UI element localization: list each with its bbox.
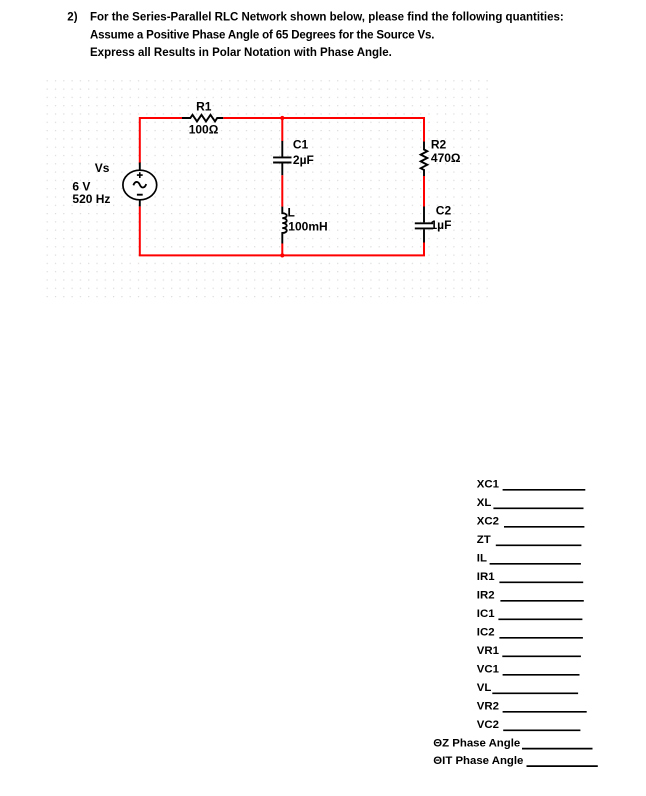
- wire top junction to right branch corner: [282, 118, 424, 142]
- svg-text:For the Series-Parallel RLC Ne: For the Series-Parallel RLC Network show…: [90, 11, 564, 23]
- heading text: [67, 11, 563, 59]
- label R2: [431, 137, 447, 151]
- node top junction: [280, 116, 284, 120]
- svg-text:VR2: VR2: [477, 701, 499, 713]
- label C2: [436, 203, 452, 217]
- svg-text:VC2: VC2: [477, 719, 499, 731]
- svg-text:IR1: IR1: [477, 571, 495, 583]
- svg-text:ΘZ Phase Angle: ΘZ Phase Angle: [433, 737, 520, 749]
- source Vs: [123, 163, 157, 207]
- answer blanks: [433, 479, 598, 767]
- label R1: [196, 100, 212, 114]
- svg-text:VR1: VR1: [477, 645, 500, 657]
- svg-text:100mH: 100mH: [288, 220, 327, 234]
- label C1: [293, 138, 309, 152]
- svg-text:100Ω: 100Ω: [189, 122, 219, 136]
- value 6 V: [72, 180, 90, 194]
- svg-text:IC2: IC2: [477, 627, 495, 639]
- wire R2 to C2: [423, 176, 425, 207]
- svg-text:VL: VL: [477, 682, 492, 694]
- node bottom junction: [280, 253, 284, 257]
- svg-text:IR2: IR2: [477, 590, 495, 602]
- svg-text:R1: R1: [196, 100, 212, 114]
- value 100Ω: [189, 122, 219, 136]
- value 100mH: [288, 220, 327, 234]
- svg-text:1µF: 1µF: [431, 218, 452, 232]
- wire top-left corner from source to R1: [140, 118, 183, 163]
- wire bottom junction to source: [140, 206, 282, 255]
- svg-text:470Ω: 470Ω: [431, 151, 461, 165]
- svg-text:2): 2): [67, 11, 77, 23]
- resistor R1: [182, 115, 223, 122]
- svg-text:R2: R2: [431, 137, 447, 151]
- svg-text:Express all Results in Polar N: Express all Results in Polar Notation wi…: [90, 47, 392, 59]
- svg-text:2µF: 2µF: [293, 153, 314, 167]
- label Vs: [95, 161, 110, 175]
- svg-text:VC1: VC1: [477, 664, 500, 676]
- svg-text:C2: C2: [436, 203, 452, 217]
- svg-text:ΘIT Phase Angle: ΘIT Phase Angle: [433, 755, 523, 767]
- wire L to bottom junction: [281, 244, 283, 256]
- svg-text:Vs: Vs: [95, 161, 110, 175]
- value 2µF: [293, 153, 314, 167]
- svg-text:IC1: IC1: [477, 608, 495, 620]
- svg-text:ZT: ZT: [477, 534, 491, 546]
- label L: [288, 206, 295, 220]
- capacitor C1: [273, 141, 291, 175]
- svg-text:L: L: [288, 206, 295, 220]
- value 1µF: [431, 218, 452, 232]
- svg-text:IL: IL: [477, 553, 487, 565]
- svg-text:520 Hz: 520 Hz: [72, 192, 110, 206]
- svg-text:XL: XL: [477, 497, 492, 509]
- svg-text:XC2: XC2: [477, 516, 499, 528]
- wire C1 to L: [281, 175, 283, 207]
- inductor L: [282, 207, 286, 244]
- resistor R2: [421, 142, 428, 177]
- value 470Ω: [431, 151, 461, 165]
- svg-text:Assume a Positive Phase Angle: Assume a Positive Phase Angle of 65 Degr…: [90, 30, 434, 42]
- wire C2 to bottom junction: [282, 243, 424, 256]
- svg-text:XC1: XC1: [477, 479, 500, 491]
- value 520 Hz: [72, 192, 110, 206]
- wire R1 to top junction: [223, 117, 282, 119]
- svg-text:C1: C1: [293, 138, 309, 152]
- capacitor C2: [415, 207, 433, 243]
- wire top junction to C1: [281, 118, 283, 141]
